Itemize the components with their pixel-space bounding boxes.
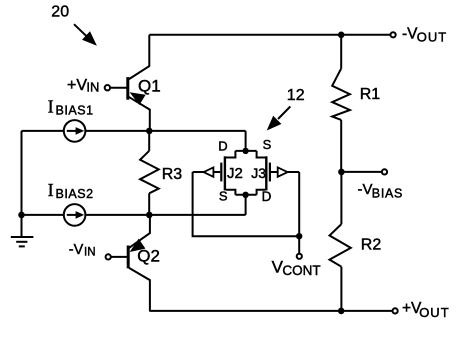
svg-text:Q1: Q1 — [138, 77, 161, 96]
svg-text:BIAS2: BIAS2 — [56, 187, 94, 201]
svg-text:BIAS: BIAS — [372, 187, 403, 201]
svg-text:J3: J3 — [251, 165, 266, 181]
junction dot: gate net — [296, 233, 302, 239]
wire: bottom rail from Q2 collector to +VOUT terminal — [149, 310, 392, 312]
terminal +VIN — [67, 77, 110, 95]
terminal -VBIAS — [341, 169, 403, 200]
wire: left vertical — [21, 131, 23, 215]
svg-text:BIAS1: BIAS1 — [56, 104, 94, 118]
current source IBIAS2 — [48, 180, 94, 226]
svg-text:I: I — [48, 96, 54, 116]
resistor R1 — [332, 35, 380, 172]
JFET bottom bus — [235, 194, 256, 196]
junction dot: R3 bottom / Q2 emitter — [146, 212, 153, 219]
wire: Q1 collector riser — [129, 35, 150, 80]
junction dot: Q1 emitter / R3 top — [146, 128, 153, 135]
arrow to 20 — [74, 24, 97, 46]
svg-text:R2: R2 — [361, 236, 382, 253]
terminal VCONT — [272, 254, 321, 278]
svg-text:IN: IN — [86, 80, 99, 95]
terminal -VIN — [69, 242, 111, 260]
svg-text:D: D — [262, 189, 272, 204]
label 20 — [51, 3, 69, 20]
svg-text:20: 20 — [51, 3, 69, 20]
transistor Q2 — [111, 215, 160, 311]
JFET J2 — [193, 151, 243, 195]
svg-text:IN: IN — [84, 247, 96, 259]
junction dot: JFET drain/source top node — [242, 148, 248, 154]
svg-text:J2: J2 — [227, 165, 243, 182]
junction dot: bottom rail / R2 — [338, 308, 345, 315]
svg-text:-V: -V — [69, 242, 84, 258]
wire: upper bias rail (node between IBIAS1, Q1 emitter, R3 top, JFET top) — [22, 131, 246, 151]
wire: top rail from Q1 collector to -VOUT terminal — [149, 34, 390, 36]
resistor R3 — [140, 131, 182, 215]
svg-text:OUT: OUT — [419, 305, 449, 320]
terminal +VOUT — [393, 300, 450, 320]
JFET J3 — [251, 151, 299, 195]
junction dot: top rail / R1 — [338, 32, 345, 39]
ground — [11, 215, 34, 246]
svg-text:R3: R3 — [162, 166, 183, 183]
junction dot: JFET source/drain bottom node — [242, 192, 248, 198]
svg-text:OUT: OUT — [417, 30, 447, 45]
svg-text:S: S — [263, 137, 272, 152]
svg-text:CONT: CONT — [282, 263, 320, 278]
svg-text:I: I — [48, 180, 54, 200]
svg-text:R1: R1 — [360, 86, 381, 103]
current source IBIAS1 — [48, 96, 94, 141]
wire: lower bias rail (node between ground, IBIAS2, R3 bottom, Q2 emitter, JFET bottom) — [22, 195, 246, 215]
svg-text:-V: -V — [402, 25, 418, 42]
svg-text:S: S — [219, 189, 228, 204]
label 12 — [287, 87, 305, 104]
junction dot: R1/R2/-VBIAS node — [338, 169, 345, 176]
resistor R2 — [330, 172, 382, 311]
junction dot: ground tap — [18, 212, 25, 219]
transistor Q1 — [110, 77, 160, 131]
arrow to 12 — [267, 107, 291, 131]
svg-text:D: D — [218, 138, 227, 153]
wire: gate net to VCONT — [193, 172, 300, 254]
svg-text:12: 12 — [287, 87, 305, 104]
JFET top bus — [235, 150, 256, 152]
terminal -VOUT — [391, 25, 448, 44]
svg-text:-V: -V — [358, 181, 373, 198]
svg-text:+V: +V — [67, 77, 87, 94]
svg-text:Q2: Q2 — [137, 246, 160, 265]
